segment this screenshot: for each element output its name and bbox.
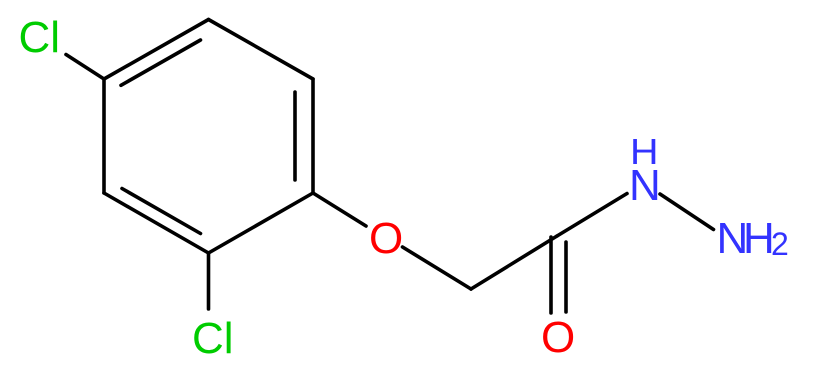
wire bond C2-Cl2 [207,253,211,309]
wire bond C8=O carbonyl line 2 [564,242,568,312]
wire bond C5-C6 ring edge [209,20,314,80]
wire bond C7-C8 [471,236,557,289]
svg-text:O: O [541,313,575,362]
wire bond C4-Cl1 [66,55,104,80]
svg-text:N: N [629,161,661,210]
wire bond C1-O ether [313,193,366,226]
wire bond C8-N [557,194,627,237]
wire bond N-N(H2) [660,194,714,230]
wire bond O ether-C7 [403,247,472,289]
wire bond C4=C5 inner double line [121,40,201,85]
svg-text:Cl: Cl [192,314,234,363]
svg-text:O: O [369,214,403,263]
svg-text:Cl: Cl [19,13,61,62]
wire bond C2=C3 inner double line [122,189,201,234]
wire bond C4-C5 ring edge [104,20,209,80]
wire bond C1-C2 ring edge [209,193,314,253]
wire bond C8=O carbonyl line 1 [549,237,553,313]
wire bond C6-C1 ring edge [311,79,315,193]
wire bond C2-C3 ring edge [104,193,209,253]
wire bond C6=C1 inner double line [293,92,297,180]
wire bond C3-C4 ring edge [102,79,106,193]
